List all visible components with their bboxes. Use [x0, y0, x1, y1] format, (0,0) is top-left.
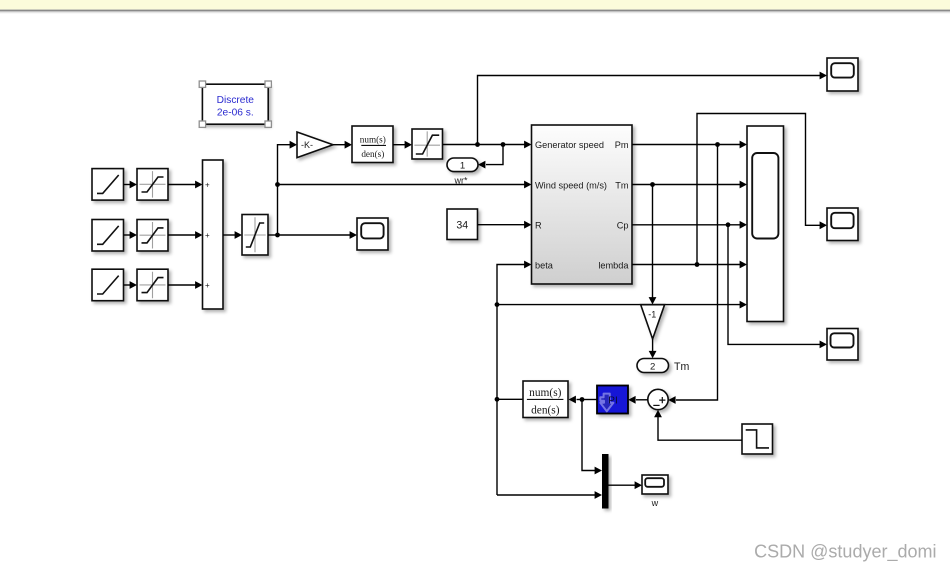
arrow into SatDyn3 [130, 281, 137, 289]
sum block Add (vertical rectangle) [203, 160, 224, 309]
svg-text:CSDN @studyer_domi: CSDN @studyer_domi [754, 542, 936, 563]
gain block -1 (triangle down) [641, 305, 665, 339]
arrow into Scope3 [820, 341, 827, 349]
svg-text:2: 2 [650, 361, 655, 372]
arrow into WT scope port 4 [740, 261, 747, 269]
wire junction to Wind speed input [278, 184, 526, 186]
svg-text:beta: beta [535, 260, 554, 270]
arrow into SatDyn2 [130, 231, 137, 239]
arrow into beta port [524, 261, 531, 269]
arrow into sum right input [668, 396, 675, 404]
junction node PI output [580, 397, 585, 402]
arrow into Saturation3 [405, 141, 412, 149]
junction node after Saturation2 [275, 233, 280, 238]
wire up to Scope4 (top right) [478, 76, 821, 145]
selection handle top-right [265, 81, 271, 87]
wire Add to Saturation2 [223, 234, 236, 236]
junction node wr* line [275, 182, 280, 187]
junction node to outport wr* [501, 142, 506, 147]
transfer fcn block TransferFcn1 [352, 126, 393, 163]
wire lembda to WT scope port 4 [632, 264, 741, 266]
arrow into Transfer Fcn1 [345, 141, 352, 149]
junction node beta/TF2 output [495, 397, 500, 402]
ramp block Ramp1 [92, 169, 124, 201]
arrow into sum bottom input [654, 410, 662, 417]
arrow into PI block input [628, 396, 635, 404]
wire Cp down to Scope3 [728, 225, 821, 345]
wire Mux to scope w [609, 484, 636, 486]
svg-text:+: + [205, 281, 210, 290]
svg-text:2e-06 s.: 2e-06 s. [217, 107, 254, 118]
scope block Scope4 (top right) [827, 58, 858, 91]
svg-text:34: 34 [456, 219, 468, 231]
svg-text:-K-: -K- [301, 140, 313, 150]
yellow toolbar strip [0, 0, 950, 10]
junction node Pm feedback [715, 142, 720, 147]
svg-text:Tm: Tm [674, 361, 689, 373]
arrow into Scope4 [820, 72, 827, 80]
mux block (black bar) [602, 454, 609, 509]
ramp block Ramp3 [92, 269, 124, 301]
subsystem block wind turbine [532, 125, 633, 284]
svg-text:lembda: lembda [598, 260, 629, 270]
svg-text:+: + [205, 180, 210, 189]
arrow into Scope2 [820, 221, 827, 229]
saturation block Saturation3 [412, 129, 443, 159]
svg-text:PI: PI [608, 395, 617, 406]
gain block -K- (triangle) [297, 132, 333, 158]
arrow into Add port 1 [195, 181, 202, 189]
constant block 34 [447, 209, 478, 240]
arrow into gain K [290, 141, 297, 149]
wire beta feedback vertical [497, 265, 525, 496]
svg-text:+: + [205, 231, 210, 240]
outport oval 1 [447, 158, 478, 172]
svg-text:1: 1 [460, 161, 465, 172]
arrow into gain -1 [649, 297, 657, 304]
arrow into Generator speed port [524, 141, 531, 149]
wire to WT scope port 5 [497, 304, 741, 306]
wire junction up to gain row and right turn [278, 145, 291, 235]
powergui block Discrete 2e-06 s. [202, 84, 268, 124]
arrow into TransferFcn2 (flipped) [569, 396, 576, 404]
junction node lembda branch [695, 262, 700, 267]
wire step to sum bottom input [658, 416, 742, 440]
wire beta net to Mux bottom input [497, 494, 596, 496]
arrow into Mux upper port [595, 467, 602, 475]
wire lembda bypass to Scope2 [697, 114, 821, 265]
selection handle bottom-left [199, 121, 205, 127]
arrow into Saturation2 [235, 231, 242, 239]
arrow into R port [524, 221, 531, 229]
arrow into outport 2 [649, 351, 657, 358]
svg-text:Tm: Tm [615, 181, 629, 191]
svg-text:Wind speed (m/s): Wind speed (m/s) [535, 181, 607, 191]
saturation dynamic block SatDyn2 [137, 220, 168, 252]
wire Saturation3 to Generator speed [443, 144, 526, 146]
arrow into scope w [635, 481, 642, 489]
svg-text:Pm: Pm [615, 140, 629, 150]
arrow into Add port 2 [195, 231, 202, 239]
wire Saturation2 output to junction [268, 234, 278, 236]
arrow into WT scope port 5 [740, 301, 747, 309]
wire sum output to PI block [636, 399, 648, 401]
scope block Scope1 [357, 218, 388, 250]
svg-text:Cp: Cp [617, 221, 629, 231]
wire PI output to junction [582, 399, 597, 401]
arrow into WT scope port 2 [740, 181, 747, 189]
arrow into Wind speed port [524, 181, 531, 189]
step block [742, 424, 773, 454]
ramp block Ramp2 [92, 220, 124, 252]
junction node to top scope [475, 142, 480, 147]
arrow into Scope1 [350, 231, 357, 239]
svg-text:wr*: wr* [454, 176, 468, 186]
wire junction to TransferFcn2 input [577, 399, 583, 401]
toolbar bottom border line [0, 10, 950, 12]
wire 34 to R port [478, 224, 526, 226]
wire Pm down to sum [676, 145, 718, 401]
wire PI junction down to Mux upper input [582, 400, 596, 471]
svg-text:num(s): num(s) [529, 387, 561, 399]
saturation dynamic block SatDyn1 [137, 169, 168, 201]
outport oval 2 [637, 359, 669, 373]
saturation block Saturation2 [242, 215, 268, 256]
arrow into outport 1 [478, 161, 485, 169]
svg-text:Discrete: Discrete [217, 95, 255, 106]
wire TransferFcn1 to Saturation3 [393, 144, 406, 146]
arrow into SatDyn1 [130, 181, 137, 189]
junction node beta/scope line [495, 302, 500, 307]
arrow into Add port 3 [195, 281, 202, 289]
wire SatDyn3 to Add [168, 284, 196, 286]
wire down-left into outport 1 [486, 145, 503, 165]
sum block (circle) [648, 389, 668, 409]
arrow into Mux lower port [595, 491, 602, 499]
wire Cp to WT scope port 3 [632, 224, 741, 226]
svg-text:-1: -1 [648, 309, 656, 319]
scope block w [642, 475, 668, 494]
wire Pm to WT scope port 1 [632, 144, 741, 146]
PI controller block (selected) [597, 386, 628, 414]
scope block Scope2 (middle right) [827, 208, 858, 241]
arrow into WT scope port 3 [740, 221, 747, 229]
wire Tm down to gain -1 [652, 185, 654, 298]
wire Ramp1 to SatDyn1 [124, 184, 132, 186]
selection handle bottom-right [265, 121, 271, 127]
wire SatDyn2 to Add [168, 234, 196, 236]
svg-text:R: R [535, 221, 542, 231]
wire gain -1 to outport 2 [652, 339, 654, 352]
junction node Cp branch [726, 222, 731, 227]
arrow into WT scope port 1 [740, 141, 747, 149]
saturation dynamic block SatDyn3 [137, 269, 168, 301]
wire gain to Transfer Fcn1 [333, 144, 346, 146]
wire SatDyn1 to Add [168, 184, 196, 186]
wire Tm to WT scope port 2 [632, 184, 741, 186]
junction node Tm branch [650, 182, 655, 187]
transfer fcn block TransferFcn2 (flipped) [523, 381, 568, 418]
svg-text:den(s): den(s) [531, 404, 560, 416]
selection handle top-left [199, 81, 205, 87]
svg-text:num(s): num(s) [360, 135, 386, 145]
scope block WT scope (5 inputs) [747, 126, 784, 322]
wire Ramp2 to SatDyn2 [124, 234, 132, 236]
scope block Scope3 (bottom right) [827, 329, 858, 361]
svg-text:Generator speed: Generator speed [535, 140, 604, 150]
wire Ramp3 to SatDyn3 [124, 284, 132, 286]
svg-text:w: w [651, 498, 659, 508]
svg-text:den(s): den(s) [361, 149, 384, 159]
wire TF2 output to beta net [497, 398, 523, 400]
wire junction to Scope1 [278, 234, 351, 236]
